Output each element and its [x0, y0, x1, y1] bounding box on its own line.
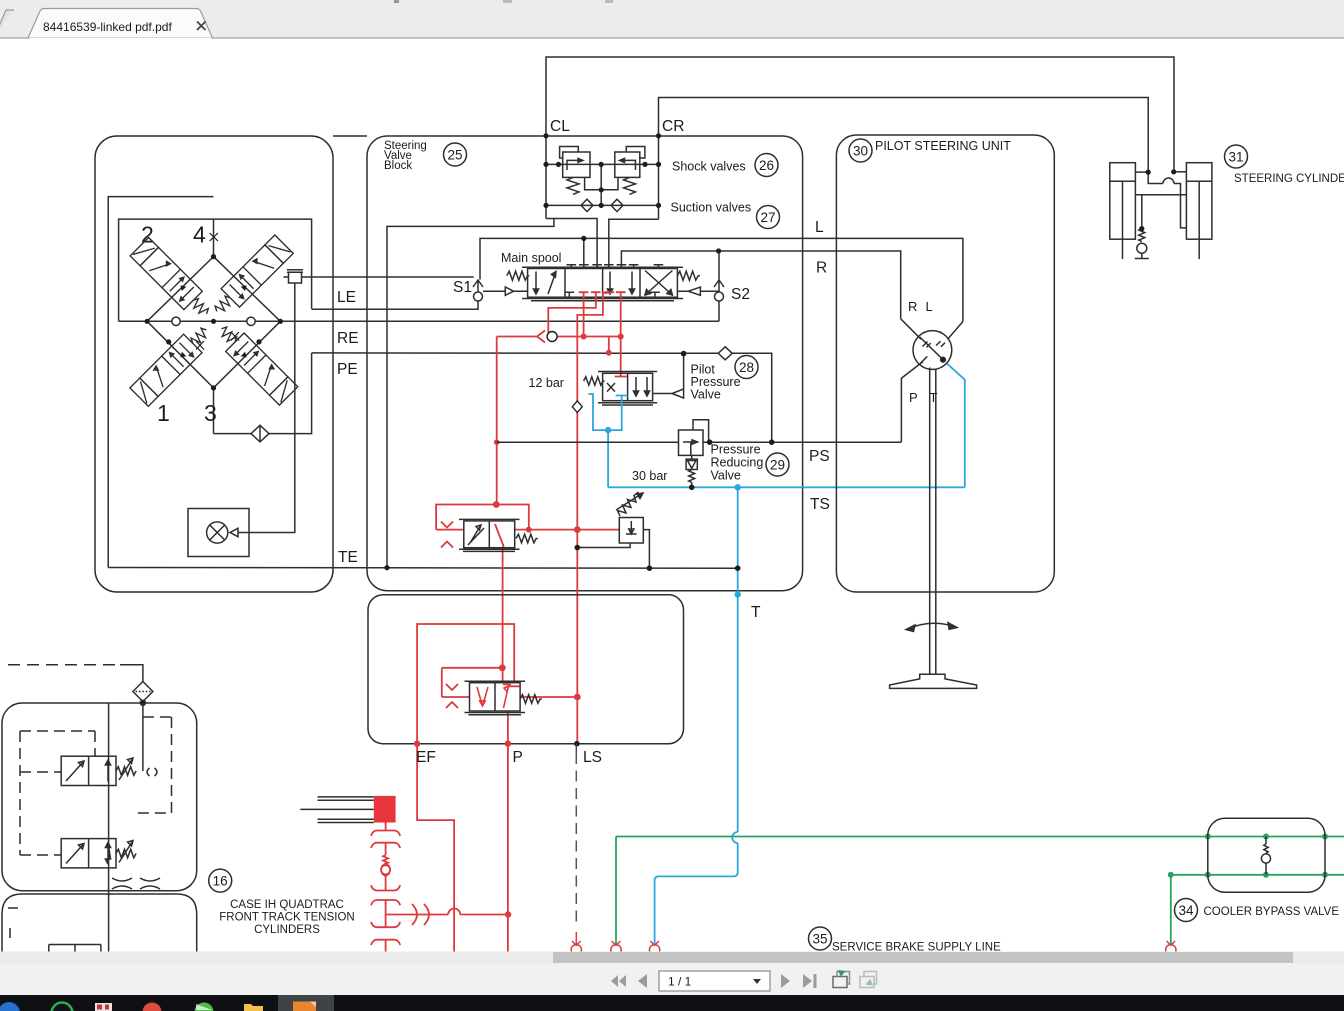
green drop at x616: [615, 837, 617, 945]
svg-text:S1: S1: [453, 279, 472, 296]
svg-text:L: L: [815, 219, 824, 236]
rotation arrows: [906, 623, 957, 629]
priority valve spring: [520, 695, 542, 704]
red priority valve circuit: [386, 624, 578, 952]
steering unit P funnel: [901, 362, 923, 442]
svg-text:26: 26: [759, 158, 774, 173]
wire: shock valve cross line: [546, 163, 659, 165]
wire: vertical from X bottom node to check diamond line: [213, 388, 215, 434]
svg-text:31: 31: [1228, 150, 1243, 165]
left valve block outer box: [95, 136, 333, 592]
wire: top line CL to steering cylinders: [546, 57, 1174, 172]
wire RE mid line: [119, 320, 719, 322]
schematic text labels: [337, 118, 830, 621]
svg-text:R: R: [816, 260, 827, 277]
svg-text:Suction valves: Suction valves: [671, 201, 752, 215]
svg-text:LE: LE: [337, 289, 356, 306]
LS node and dashed LS line: [574, 741, 580, 747]
red diagonal inside 12 bar valve exiting down: [495, 524, 504, 668]
blue TS vertical: [607, 430, 609, 487]
small dashes lower left: [8, 908, 18, 940]
svg-text:Shock valves: Shock valves: [672, 160, 746, 174]
feed line hop over EF: [448, 909, 460, 915]
small spring: [383, 855, 388, 864]
svg-text:84416539-linked pdf.pdf: 84416539-linked pdf.pdf: [43, 20, 172, 34]
svg-text:Main spool: Main spool: [501, 251, 561, 265]
small x marks near valves: [196, 233, 239, 350]
svg-text:CASE IH QUADTRAC: CASE IH QUADTRAC: [230, 899, 344, 911]
pilot steering unit box (30): [836, 135, 1054, 688]
relief valve with diagonal spring: [577, 492, 649, 568]
red valve output to LS node: [520, 696, 577, 698]
shock valve left pilot box: [560, 147, 579, 159]
pdf navigation bar: [0, 963, 1344, 995]
wire: CR vertical into shock valves: [658, 136, 660, 220]
red junction dots: [493, 334, 624, 533]
cylinder port connections: [1135, 171, 1148, 173]
active tab: 84416539-linked pdf.pdf: [28, 9, 213, 39]
pilot valve drain to PE line: [653, 354, 684, 398]
svg-text:Block: Block: [384, 160, 412, 172]
wire: X diagonal top-left arm: [147, 257, 213, 322]
main spool valve: [312, 265, 724, 322]
svg-text:P: P: [513, 749, 523, 766]
quick coupler pair mid: [371, 885, 400, 890]
svg-text:RE: RE: [337, 330, 359, 347]
svg-text:30: 30: [853, 144, 868, 159]
wire: L pilot drop to spool: [583, 238, 585, 267]
air gap symbols: [112, 878, 132, 889]
wire: X diagonal top-right arm: [214, 257, 281, 322]
steering unit rotary circle: [913, 331, 952, 370]
svg-text:FRONT TRACK TENSION: FRONT TRACK TENSION: [219, 912, 354, 924]
dashed supply line at top: [8, 664, 120, 666]
wire: vertical from 2/4 box top to X top node: [213, 219, 215, 257]
shock valve right pilot box: [626, 147, 645, 159]
svg-text:Reducing: Reducing: [711, 456, 764, 470]
green cooler bypass lines: [616, 837, 1344, 945]
pilot valve 2 (upper-left): [130, 237, 216, 323]
shuttle circle right on RE line: [247, 317, 255, 325]
shuttle circle left on RE line: [172, 317, 180, 325]
blue TS horizontal: [608, 486, 965, 488]
dashed pilot network: [20, 717, 172, 855]
red priority valve internals: [477, 687, 488, 706]
svg-text:PILOT STEERING UNIT: PILOT STEERING UNIT: [875, 139, 1011, 153]
pilot valve 1 (lower-left): [130, 321, 216, 407]
red track tension feed line: [386, 914, 509, 916]
blue diagonal from rotary valve to TS drop: [946, 363, 965, 487]
shock valve right body: [615, 152, 640, 177]
cooler bypass check valve: [1261, 837, 1270, 875]
12 bar reducing valve body: [459, 519, 538, 551]
left block inner L-line: [108, 197, 213, 568]
check valve diamond in left block: [251, 425, 269, 442]
check valve circle on red cross line: [547, 332, 557, 342]
red stub spool port A: [579, 292, 589, 336]
priority valve body: [465, 681, 542, 715]
shock valve left body: [563, 152, 590, 177]
junction dots in left block: [145, 254, 390, 570]
svg-text:LS: LS: [583, 749, 602, 766]
svg-text:EF: EF: [416, 749, 436, 766]
filter diamond: [133, 682, 153, 702]
red anti-cavitation chevrons at 12bar valve: [441, 522, 453, 548]
wire PE line: [312, 353, 772, 442]
lamp circle with X: [207, 522, 228, 543]
red stub spool port D: [616, 292, 626, 336]
spool right spring: [677, 271, 700, 280]
blue hop over green line: [732, 832, 738, 843]
steering cylinders (31): [1110, 163, 1212, 259]
svg-text:1 / 1: 1 / 1: [668, 975, 692, 989]
2/4 inner box top and sides: [119, 219, 312, 321]
bottom chrome: scrollbar: [0, 952, 1344, 996]
svg-text:P: P: [909, 390, 918, 405]
steering column double shaft: [930, 368, 936, 675]
svg-text:TE: TE: [338, 549, 358, 566]
windows taskbar: [0, 995, 1344, 1011]
svg-text:S2: S2: [731, 286, 750, 303]
wire: L line with S1 riser: [480, 238, 963, 321]
svg-text:12 bar: 12 bar: [529, 376, 564, 390]
previous tab right slant at far left: [0, 10, 14, 38]
PS line: [497, 441, 902, 443]
red track tension stack: [371, 823, 400, 953]
svg-text:4: 4: [193, 222, 206, 248]
previous view icon: [833, 971, 850, 988]
pilot valve 3 (lower-right): [212, 320, 298, 406]
hose couplings on feed line: [412, 904, 429, 925]
black suction diamond on main red line: [572, 401, 582, 413]
red LS segment inside box: [576, 697, 578, 744]
wire: X diagonal bottom-left arm: [147, 321, 213, 388]
wire: X diagonal bottom-right arm: [214, 321, 281, 388]
check ball circle: [385, 864, 387, 866]
pilot valve 4 (upper-right): [208, 235, 294, 321]
labels EF P LS: [416, 749, 602, 766]
red left branch (steering supply): [496, 337, 498, 505]
priority valve box: [368, 595, 684, 744]
svg-text:R: R: [908, 299, 917, 314]
svg-text:30 bar: 30 bar: [632, 469, 667, 483]
spool left spring: [507, 271, 530, 280]
red loop at 12 bar valve: [436, 505, 529, 530]
red stub spool port C to main red line: [577, 292, 614, 697]
svg-text:PS: PS: [809, 448, 830, 465]
svg-text:16: 16: [213, 874, 228, 889]
red wiring: spool outputs: [436, 292, 627, 697]
pilot valve spring left: [584, 377, 605, 385]
red EF drop below box: [417, 744, 454, 952]
red supply loop at priority valve: [442, 668, 503, 697]
tension valve B: [61, 839, 116, 868]
blue stub from pilot valve bottom: [589, 394, 628, 430]
svg-text:COOLER BYPASS VALVE: COOLER BYPASS VALVE: [1204, 906, 1340, 918]
S1 check and arrow: [473, 280, 483, 292]
labels 1 2 3 4: [141, 222, 217, 426]
wire: connector between left block and steering block: [333, 135, 367, 137]
svg-text:CL: CL: [550, 118, 570, 135]
red EF riser loop: [417, 624, 520, 744]
browser tab bar background: [0, 0, 1344, 38]
bottom port circles: [571, 932, 1176, 955]
svg-text:T: T: [930, 390, 938, 405]
cooler bypass valve box (34): [1208, 818, 1325, 892]
track tension accumulator cylinder: [300, 797, 374, 823]
circled item numbers: [209, 139, 1248, 950]
steering wheel: [890, 674, 977, 688]
wire: R line from spool corner: [621, 251, 900, 319]
svg-text:PE: PE: [337, 361, 358, 378]
steering valve block outer box: [367, 136, 803, 591]
wire: CL vertical into shock valves: [545, 136, 547, 219]
spool top port T-bars: [567, 265, 577, 269]
svg-text:Valve: Valve: [691, 388, 721, 402]
12bar valve spring: [516, 534, 538, 543]
junction dots steering block top: [543, 133, 721, 253]
svg-text:Valve: Valve: [711, 469, 741, 483]
wire: CL pilot drop to main spool: [546, 219, 597, 268]
steering unit funnel L/R: [901, 319, 963, 339]
spool bottom black port T-bars: [565, 292, 575, 297]
svg-text:Pressure: Pressure: [711, 443, 761, 457]
partial valve at bottom: [49, 945, 101, 953]
wire: check diamond line to PE riser: [214, 353, 312, 434]
green return horizontal: [1171, 874, 1344, 876]
shock valve left spring: [567, 177, 579, 194]
red accumulator piston: [374, 796, 396, 823]
second box below: [2, 894, 197, 952]
svg-text:29: 29: [770, 458, 785, 473]
svg-text:3: 3: [204, 400, 217, 426]
wire: suction valve line: [546, 204, 659, 206]
pressure reducing valve (29): [679, 420, 709, 488]
svg-text:28: 28: [739, 360, 754, 375]
lamp box: [188, 509, 249, 557]
green drop to brake supply: [1170, 875, 1172, 944]
lamp arrow and wire to plug riser: [230, 283, 295, 537]
svg-text:34: 34: [1178, 903, 1194, 918]
wire: R drop to S2: [718, 251, 720, 280]
blue T drop: [655, 487, 738, 944]
red P port drop: [507, 711, 509, 952]
tension valve A: [61, 756, 116, 785]
pilot pressure valve body: [584, 354, 684, 405]
LE plug symbol: [287, 270, 303, 272]
svg-text:CYLINDERS: CYLINDERS: [254, 924, 320, 936]
check valve under left cylinder: [1139, 229, 1145, 242]
supply vertical through box: [108, 703, 110, 952]
wire LE from plug: [284, 276, 474, 278]
wire: center vertical between shock and suction: [600, 164, 602, 205]
wire: second top line CR to steering cylinders: [659, 98, 1149, 173]
svg-text:TS: TS: [810, 496, 830, 513]
green supply horizontal: [616, 836, 1344, 838]
wire: riser from TE to steering block inner rect: [387, 219, 554, 568]
red line 12bar valve to relief valve: [515, 529, 620, 531]
quick coupler halves top: [371, 831, 400, 836]
S2 check and arrow: [714, 280, 724, 292]
red stub spool port B to step: [548, 292, 600, 336]
track tension valve box (16): [2, 665, 197, 952]
svg-text:T: T: [751, 604, 761, 621]
red tap to PE line: [608, 337, 610, 353]
svg-text:STEERING CYLINDERS: STEERING CYLINDERS: [1234, 173, 1344, 185]
svg-text:35: 35: [812, 932, 827, 947]
svg-text:L: L: [926, 299, 933, 314]
shock valve drain L-connectors: [585, 177, 618, 189]
svg-text:CR: CR: [662, 118, 684, 135]
wire: CR pilot drop to main spool: [609, 219, 659, 267]
next view icon (disabled): [860, 972, 877, 988]
shock valve right spring: [624, 177, 636, 194]
svg-text:27: 27: [760, 210, 775, 225]
PE diamond symbol: [718, 347, 732, 360]
port arrows on X arms: [180, 285, 246, 357]
blue wiring TS: [589, 363, 965, 944]
suction valve diamond right: [611, 199, 623, 211]
red cross line with check: [497, 331, 621, 343]
wire TE line: [108, 567, 738, 570]
svg-text:1: 1: [157, 400, 170, 426]
suction valve diamond left: [581, 199, 593, 211]
svg-text:25: 25: [447, 148, 462, 163]
quick coupler pair bottom: [371, 922, 400, 927]
red drop to pilot pressure valve: [615, 337, 627, 377]
